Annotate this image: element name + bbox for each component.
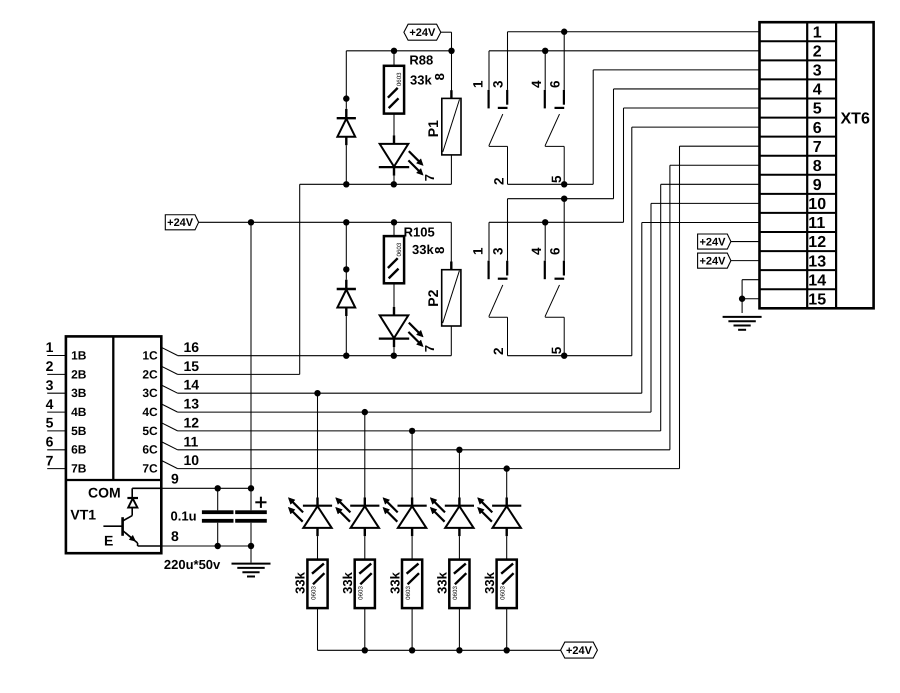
svg-text:7C: 7C — [142, 462, 158, 476]
svg-text:0603: 0603 — [310, 586, 317, 600]
svg-text:33k: 33k — [340, 571, 355, 593]
svg-text:4: 4 — [529, 80, 544, 88]
svg-text:5C: 5C — [142, 424, 158, 438]
svg-text:7: 7 — [813, 139, 822, 156]
svg-text:12: 12 — [808, 234, 826, 251]
svg-text:+24V: +24V — [699, 256, 726, 268]
svg-text:5: 5 — [46, 415, 54, 431]
svg-text:0603: 0603 — [396, 242, 403, 256]
svg-text:2C: 2C — [142, 367, 158, 381]
svg-text:4: 4 — [813, 82, 822, 99]
svg-text:10: 10 — [184, 452, 200, 468]
svg-text:2B: 2B — [71, 367, 87, 381]
svg-text:14: 14 — [808, 272, 826, 289]
svg-text:2: 2 — [813, 44, 822, 61]
svg-text:6B: 6B — [71, 443, 87, 457]
svg-text:6C: 6C — [142, 443, 158, 457]
svg-text:8: 8 — [171, 528, 179, 544]
svg-text:0603: 0603 — [452, 586, 459, 600]
svg-text:33k: 33k — [435, 571, 450, 593]
svg-text:+24V: +24V — [566, 645, 593, 657]
svg-text:3B: 3B — [71, 386, 87, 400]
svg-text:3: 3 — [813, 63, 822, 80]
svg-text:16: 16 — [184, 339, 200, 355]
svg-text:2: 2 — [491, 348, 506, 356]
svg-text:15: 15 — [184, 358, 200, 374]
svg-text:XT6: XT6 — [841, 111, 870, 128]
svg-text:4: 4 — [46, 396, 54, 412]
svg-text:6: 6 — [548, 80, 563, 88]
svg-text:8: 8 — [813, 158, 822, 175]
svg-text:5: 5 — [549, 175, 564, 183]
svg-text:33k: 33k — [482, 571, 497, 593]
svg-text:6: 6 — [548, 247, 563, 255]
svg-text:4C: 4C — [142, 405, 158, 419]
svg-text:14: 14 — [184, 377, 200, 393]
svg-text:3: 3 — [490, 80, 505, 88]
svg-text:0603: 0603 — [405, 586, 412, 600]
svg-text:11: 11 — [184, 433, 199, 449]
svg-text:33k: 33k — [387, 571, 402, 593]
svg-text:7B: 7B — [71, 462, 87, 476]
svg-text:7: 7 — [46, 452, 54, 468]
svg-text:12: 12 — [184, 414, 200, 430]
svg-text:3: 3 — [490, 247, 505, 255]
svg-text:13: 13 — [808, 253, 826, 270]
svg-text:R88: R88 — [409, 53, 433, 68]
svg-text:220u*50v: 220u*50v — [164, 557, 221, 572]
svg-text:10: 10 — [808, 196, 826, 213]
svg-text:8: 8 — [432, 247, 447, 254]
svg-text:4: 4 — [529, 247, 544, 255]
svg-text:5B: 5B — [71, 424, 87, 438]
svg-text:2: 2 — [46, 358, 54, 374]
svg-text:1: 1 — [471, 247, 486, 255]
svg-text:R105: R105 — [404, 224, 435, 239]
svg-text:1: 1 — [46, 339, 54, 355]
svg-text:9: 9 — [813, 177, 822, 194]
svg-text:1: 1 — [471, 80, 486, 88]
svg-text:33k: 33k — [410, 72, 432, 87]
svg-text:+24V: +24V — [409, 27, 436, 39]
svg-text:E: E — [104, 532, 113, 548]
svg-text:6: 6 — [813, 120, 822, 137]
svg-text:4B: 4B — [71, 405, 87, 419]
svg-text:0603: 0603 — [396, 72, 403, 86]
svg-text:P1: P1 — [425, 120, 441, 137]
svg-text:3C: 3C — [142, 386, 158, 400]
svg-text:11: 11 — [808, 215, 825, 232]
svg-text:5: 5 — [549, 346, 564, 354]
svg-text:0603: 0603 — [358, 586, 365, 600]
svg-text:15: 15 — [808, 291, 826, 308]
svg-text:P2: P2 — [425, 289, 441, 306]
svg-text:1: 1 — [813, 24, 822, 41]
svg-text:9: 9 — [171, 471, 179, 487]
svg-text:7: 7 — [422, 174, 437, 181]
svg-text:8: 8 — [432, 73, 447, 80]
svg-text:1B: 1B — [71, 348, 87, 362]
svg-text:0603: 0603 — [500, 586, 507, 600]
svg-text:+24V: +24V — [699, 236, 726, 248]
svg-text:7: 7 — [422, 345, 437, 352]
svg-text:13: 13 — [184, 396, 200, 412]
svg-text:3: 3 — [46, 377, 54, 393]
svg-text:5: 5 — [813, 101, 822, 118]
svg-text:6: 6 — [46, 434, 54, 450]
svg-text:1C: 1C — [142, 348, 158, 362]
svg-text:2: 2 — [492, 177, 507, 185]
svg-text:0.1u: 0.1u — [171, 509, 197, 524]
svg-text:33k: 33k — [293, 571, 308, 593]
svg-text:COM: COM — [88, 485, 121, 501]
svg-text:VT1: VT1 — [70, 507, 96, 523]
svg-text:+24V: +24V — [167, 217, 194, 229]
